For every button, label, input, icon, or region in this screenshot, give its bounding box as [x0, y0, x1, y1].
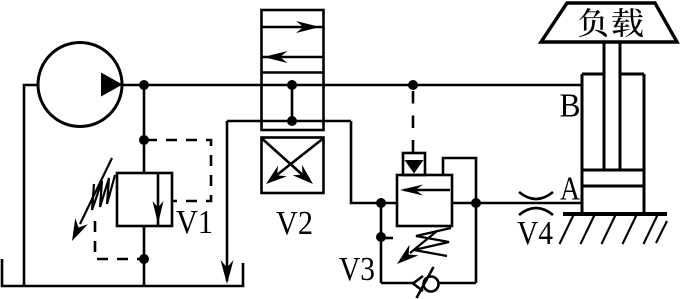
sequence valve V3 pilot line (dashed) — [412, 91, 415, 153]
junction node pump outlet — [139, 80, 149, 90]
V2 neutral blocked port connector — [291, 85, 294, 121]
load text glyph FU (负) — [579, 8, 607, 37]
sequence valve V3 pilot triangle — [405, 160, 424, 174]
cylinder left wall — [581, 74, 584, 214]
wire A line (V3/V4 to cylinder port A) — [476, 202, 582, 205]
relief valve V1 internal flow line — [157, 174, 160, 225]
piston top — [582, 169, 644, 172]
wire V2 return line to tank — [226, 121, 229, 281]
cylinder right wall — [643, 74, 646, 214]
piston rod right edge — [619, 42, 622, 170]
V2 cross diagonal 1 — [263, 139, 307, 178]
wire V3 top bypass — [443, 158, 476, 203]
V2 position-a arrowhead right — [296, 21, 320, 33]
wire check valve riser — [475, 203, 478, 283]
junction node V2 blocked port lower — [287, 116, 297, 126]
wire V2 lower port line (tank side) — [227, 120, 351, 123]
svg-text:A: A — [560, 171, 580, 208]
wire check valve bottom line right — [439, 282, 476, 285]
sequence valve V3 adjust arrow — [410, 231, 437, 253]
wire V1 inlet branch — [143, 85, 146, 173]
wire pump suction (left side down to tank) — [24, 85, 38, 286]
pump P1 circle — [38, 43, 122, 127]
relief valve V1 adjust arrow — [80, 158, 112, 224]
svg-text:B: B — [560, 88, 581, 125]
V2 position-a arrowhead left — [264, 51, 288, 63]
load text glyph ZAI (载) — [612, 8, 643, 37]
junction node V3 pilot tap — [408, 80, 418, 90]
relief valve V1 internal arrowhead — [153, 201, 164, 224]
svg-text:V2: V2 — [276, 205, 313, 242]
V2 position-a flow line P to B — [262, 26, 324, 29]
junction node V3 outlet — [471, 198, 481, 208]
relief valve V1 drain line (dashed) — [95, 221, 140, 259]
tank line (bottom return rail) — [2, 259, 243, 286]
svg-text:V4: V4 — [517, 215, 553, 252]
junction node V3 inlet — [376, 198, 386, 208]
sequence valve V3 pilot head box — [403, 153, 425, 175]
junction node V2 blocked port upper — [287, 80, 297, 90]
V2 cross position box — [262, 138, 324, 194]
throttle valve V4 upper arc — [519, 192, 553, 199]
relief valve V1 body — [117, 173, 172, 226]
piston rod left edge — [603, 42, 606, 170]
junction node V3 spring chamber — [376, 232, 386, 242]
sequence valve V3 spring — [414, 228, 451, 256]
V2 division line between position boxes — [262, 71, 324, 74]
relief valve V1 pilot line (dashed) — [146, 140, 211, 201]
svg-text:V1: V1 — [176, 204, 213, 241]
V2 position-a flow line A to T — [262, 56, 324, 59]
piston bottom — [582, 185, 644, 188]
wire V3 spring stub — [381, 237, 393, 240]
wire main pressure line P (pump to cylinder port B) — [122, 84, 582, 87]
V2 cross diagonal 2 — [273, 139, 323, 178]
wire check valve bottom line left — [381, 282, 415, 285]
ground hatching — [560, 215, 668, 244]
wire V3 outlet — [452, 202, 476, 205]
directional valve V2 upper body — [262, 10, 324, 130]
sequence valve V3 body — [397, 175, 452, 226]
check valve seat — [413, 276, 423, 291]
ground line — [563, 212, 667, 216]
pump P1 output triangle — [101, 73, 123, 97]
arrowhead into tank — [221, 260, 234, 284]
wire V1 outlet to tank — [143, 226, 146, 286]
check valve ball — [424, 277, 439, 292]
junction node V1 pilot tap — [139, 135, 149, 145]
load trapezoid — [541, 3, 677, 42]
cylinder top cap right — [620, 73, 644, 76]
svg-text:V3: V3 — [339, 251, 375, 288]
relief valve V1 spring — [92, 175, 115, 210]
wire V3 left vertical — [380, 203, 383, 283]
sequence valve V3 internal flow line — [404, 189, 450, 192]
junction node V1 drain — [139, 254, 149, 264]
sequence valve V3 internal arrowhead — [400, 185, 423, 196]
throttle valve V4 lower arc — [519, 208, 553, 215]
cylinder top cap left — [582, 73, 604, 76]
wire V2 to V3 inlet — [351, 121, 397, 203]
check valve seat line — [417, 267, 434, 298]
